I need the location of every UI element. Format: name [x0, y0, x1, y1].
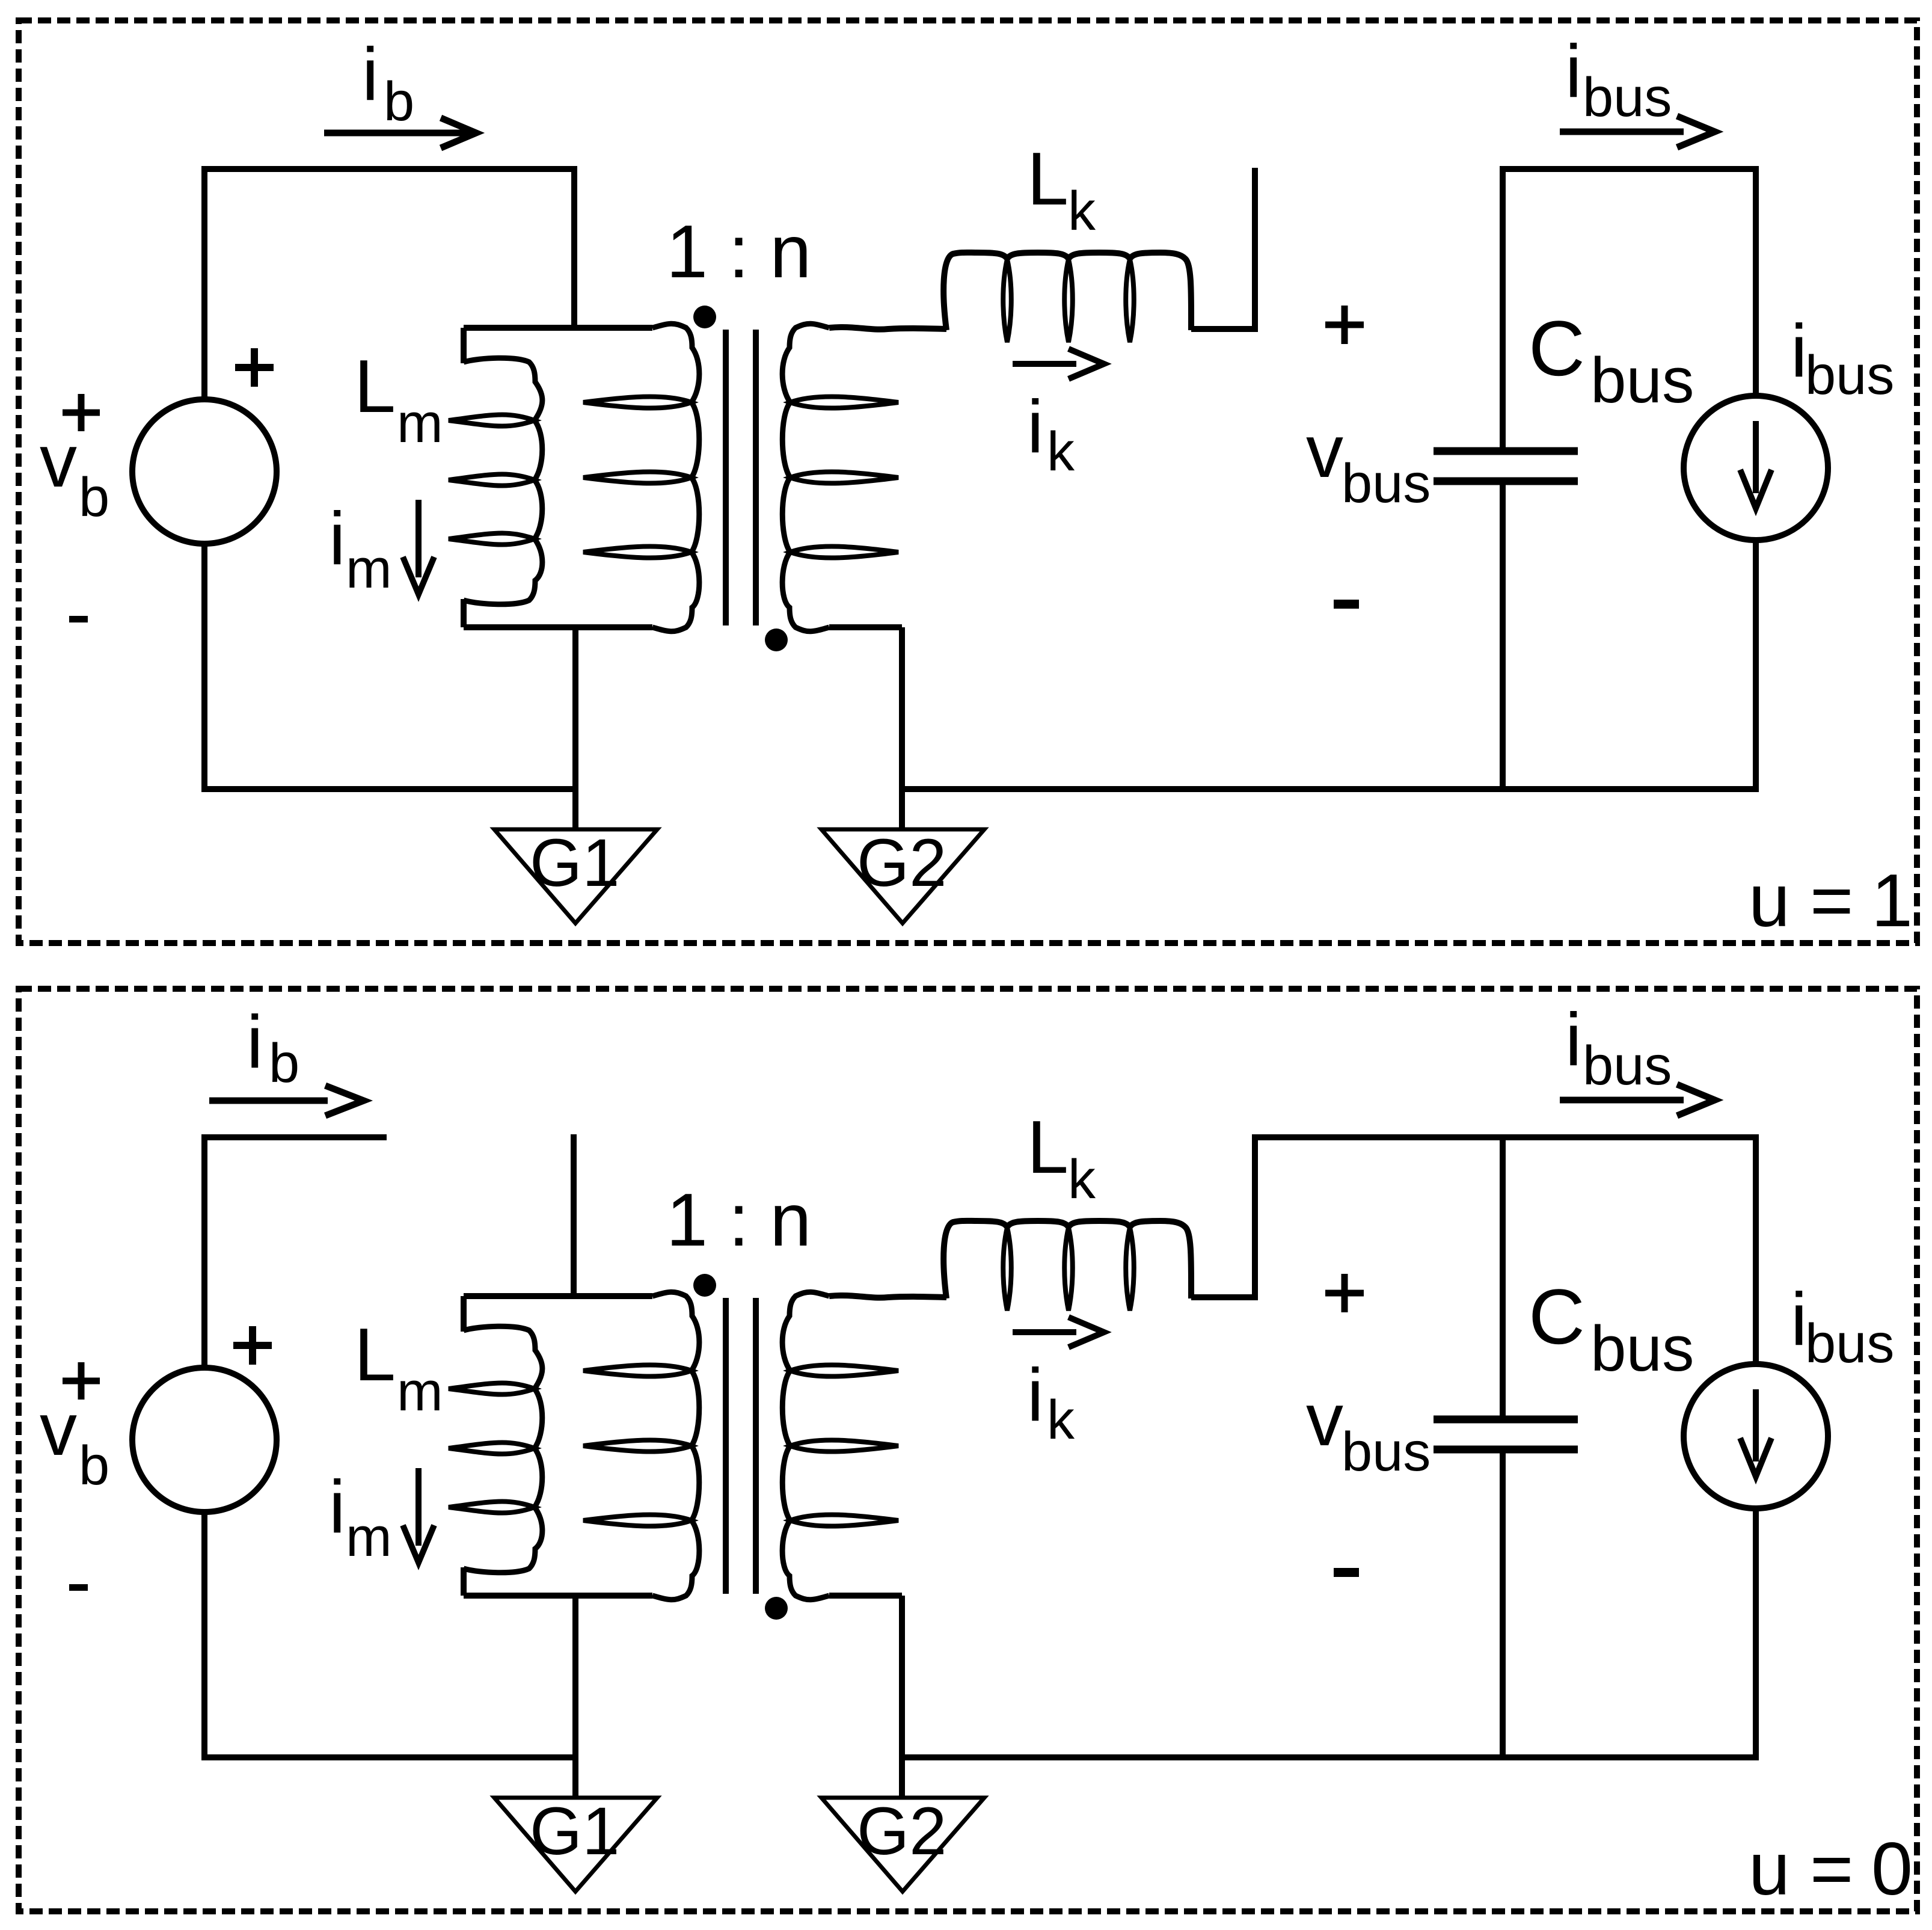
inductor L_k loop crossing — [1003, 1228, 1011, 1311]
wire bottom rail left (v_b to G1 node) — [201, 786, 575, 792]
voltage source v_b circle — [132, 1368, 277, 1512]
inductor L_m loop crossing — [449, 1442, 535, 1454]
transformer primary winding — [652, 1292, 699, 1600]
transformer secondary loop crossing — [790, 1365, 898, 1376]
svg-text:L: L — [354, 345, 396, 428]
svg-text:i: i — [329, 497, 346, 580]
svg-text:v: v — [40, 420, 77, 503]
inductor L_k loop crossing — [1126, 259, 1134, 342]
transformer primary loop crossing — [583, 1440, 692, 1451]
current arrow i_m — [416, 1468, 422, 1546]
wire secondary bottom to G2 — [829, 627, 902, 829]
svg-text:m: m — [346, 538, 392, 600]
svg-text:G2: G2 — [857, 1793, 946, 1869]
svg-text:u: u — [1749, 859, 1790, 942]
label minus of v_bus — [1334, 1568, 1359, 1577]
svg-text:b: b — [79, 467, 109, 528]
svg-text:i: i — [362, 33, 379, 116]
transformer primary dot — [693, 306, 716, 328]
transformer secondary winding — [782, 324, 829, 632]
svg-text:k: k — [1068, 180, 1096, 242]
svg-text:i: i — [329, 1466, 346, 1549]
current source i_bus internal arrow — [1753, 1389, 1759, 1461]
wire top rail v_b to transformer primary (closed) — [201, 166, 574, 328]
svg-text:bus: bus — [1583, 1035, 1672, 1096]
transformer secondary dot — [765, 628, 788, 651]
svg-text:v: v — [1306, 1378, 1343, 1461]
svg-text:C: C — [1529, 304, 1585, 392]
inductor L_m loop crossing — [449, 414, 535, 426]
svg-text:bus: bus — [1583, 67, 1672, 128]
current source i_bus circle — [1684, 1364, 1828, 1508]
wire C_bus bottom branch — [1500, 485, 1506, 792]
ground G2 triangle — [821, 1798, 984, 1892]
label minus terminal of v_b — [69, 1584, 88, 1591]
wire transformer top link — [464, 325, 652, 331]
current arrow i_k — [1013, 1329, 1076, 1335]
wire L_k output with open stub (switch off) — [1191, 168, 1255, 332]
inductor L_k loop crossing — [1126, 1228, 1134, 1311]
current source i_bus circle — [1684, 396, 1828, 540]
svg-text:b: b — [79, 1435, 109, 1496]
svg-text:i: i — [1565, 998, 1582, 1081]
wire bus top rail — [1500, 166, 1758, 172]
svg-text:G2: G2 — [857, 825, 946, 900]
svg-text:bus: bus — [1342, 453, 1431, 514]
svg-text:L: L — [354, 1314, 396, 1397]
wire transformer top link — [464, 1293, 652, 1299]
inductor L_k loop crossing — [1064, 1228, 1073, 1311]
svg-text:i: i — [1027, 386, 1044, 469]
svg-text:m: m — [397, 393, 443, 454]
svg-text:i: i — [1027, 1354, 1044, 1437]
wire transformer bottom link — [464, 1593, 652, 1599]
label plus terminal of v_b — [63, 1362, 100, 1400]
wire i_bus source bottom lead — [1753, 540, 1759, 792]
svg-text:v: v — [1306, 410, 1343, 493]
capacitor C_bus plates — [1434, 451, 1578, 481]
inductor L_k coil — [943, 253, 1191, 330]
transformer secondary winding — [782, 1292, 829, 1600]
transformer primary loop crossing — [583, 1514, 692, 1526]
voltage source v_b polarity plus — [235, 348, 274, 387]
wire v_b top lead — [201, 172, 207, 399]
ground G1 triangle — [494, 829, 657, 923]
svg-text:bus: bus — [1590, 1312, 1694, 1384]
current arrow i_bus top — [1560, 129, 1684, 135]
svg-text:L: L — [1027, 1106, 1069, 1189]
ground G1 triangle — [494, 1798, 657, 1892]
wire secondary top to L_k — [829, 1295, 946, 1298]
transformer secondary loop crossing — [790, 396, 898, 408]
transformer secondary dot — [765, 1597, 788, 1620]
svg-text:bus: bus — [1590, 344, 1694, 416]
inductor L_k coil — [943, 1221, 1191, 1298]
svg-text:G1: G1 — [530, 1793, 619, 1869]
transformer core lines — [726, 1298, 756, 1594]
svg-text:bus: bus — [1342, 1421, 1431, 1483]
inductor L_m loop crossing — [449, 533, 535, 544]
svg-text:1 : n: 1 : n — [666, 211, 811, 293]
svg-text:L: L — [1027, 138, 1069, 221]
inductor L_m loop crossing — [449, 1501, 535, 1513]
voltage source v_b circle — [132, 399, 277, 544]
wire secondary bottom to G2 — [829, 1596, 902, 1798]
transformer secondary loop crossing — [790, 546, 898, 558]
wire transformer bottom link — [464, 624, 652, 630]
label plus of v_bus — [1325, 306, 1364, 344]
wire L_k output connected to bus top rail — [1191, 1137, 1758, 1297]
wire top rail from v_b, open end (switch off) — [201, 1134, 387, 1140]
ground G2 triangle — [821, 829, 984, 923]
svg-text:k: k — [1047, 421, 1075, 482]
svg-text:C: C — [1529, 1273, 1585, 1360]
transformer primary loop crossing — [583, 396, 692, 408]
transformer primary loop crossing — [583, 546, 692, 558]
svg-text:k: k — [1068, 1149, 1096, 1210]
wire C_bus bottom branch — [1500, 1453, 1506, 1760]
current arrow i_k — [1013, 361, 1076, 367]
label minus of v_bus — [1334, 600, 1359, 609]
svg-text:=: = — [1810, 1828, 1853, 1911]
svg-text:G1: G1 — [530, 825, 619, 900]
svg-text:1: 1 — [1871, 859, 1913, 942]
svg-text:m: m — [346, 1507, 392, 1568]
wire C_bus top branch — [1500, 169, 1506, 447]
inductor L_m winding (magnetizing inductance) — [461, 1296, 467, 1332]
wire i_bus source top lead — [1753, 1134, 1759, 1365]
transformer primary dot — [693, 1274, 716, 1297]
transformer secondary loop crossing — [790, 1440, 898, 1451]
svg-text:b: b — [384, 71, 414, 132]
label plus terminal of v_b — [63, 394, 100, 431]
svg-text:bus: bus — [1805, 345, 1894, 406]
current arrow i_m — [416, 500, 422, 577]
svg-text:m: m — [397, 1361, 443, 1422]
svg-text:v: v — [40, 1388, 77, 1471]
capacitor C_bus plates — [1434, 1419, 1578, 1449]
current arrow i_bus top — [1560, 1097, 1684, 1104]
wire transformer primary bottom to G1 — [572, 1596, 578, 1798]
inductor L_k loop crossing — [1064, 259, 1073, 342]
wire v_b bottom lead — [201, 1512, 207, 1760]
transformer primary loop crossing — [583, 1365, 692, 1376]
transformer primary loop crossing — [583, 472, 692, 483]
inductor L_k loop crossing — [1003, 259, 1011, 342]
wire open stub above transformer primary — [571, 1134, 577, 1296]
current source i_bus internal arrow — [1753, 421, 1759, 493]
wire bottom rail left (v_b to G1 node) — [201, 1754, 575, 1760]
transformer secondary loop crossing — [790, 1514, 898, 1526]
wire i_bus source bottom lead — [1753, 1508, 1759, 1760]
current arrow i_b — [324, 130, 469, 137]
wire bottom rail right — [902, 786, 1759, 792]
current arrow i_b — [209, 1098, 328, 1104]
wire bottom rail right — [902, 1754, 1759, 1760]
svg-text:k: k — [1047, 1389, 1075, 1451]
voltage source v_b polarity plus — [233, 1326, 272, 1365]
svg-text:=: = — [1810, 859, 1853, 942]
wire i_bus source top lead — [1753, 166, 1759, 397]
svg-text:i: i — [247, 1001, 263, 1084]
wire v_b bottom lead — [201, 544, 207, 792]
inductor L_m loop crossing — [449, 474, 535, 485]
wire secondary top to L_k — [829, 327, 946, 330]
transformer secondary loop crossing — [790, 472, 898, 483]
wire transformer primary bottom to G1 — [572, 627, 578, 829]
svg-text:i: i — [1565, 30, 1582, 113]
svg-text:bus: bus — [1805, 1313, 1894, 1374]
inductor L_m loop crossing — [449, 1383, 535, 1394]
svg-text:1 : n: 1 : n — [666, 1179, 811, 1262]
label minus terminal of v_b — [69, 616, 88, 622]
svg-text:b: b — [269, 1033, 299, 1094]
svg-text:u: u — [1749, 1828, 1790, 1911]
inductor L_m winding (magnetizing inductance) — [461, 328, 467, 363]
wire C_bus top branch — [1500, 1137, 1506, 1416]
svg-text:0: 0 — [1871, 1828, 1913, 1911]
panel u = 1 boundary (dashed box) — [19, 20, 1917, 943]
wire v_b top lead — [201, 1140, 207, 1368]
transformer core lines — [726, 330, 756, 625]
panel u = 0 boundary (dashed box) — [19, 989, 1917, 1911]
label plus of v_bus — [1325, 1274, 1364, 1312]
transformer primary winding — [652, 324, 699, 632]
